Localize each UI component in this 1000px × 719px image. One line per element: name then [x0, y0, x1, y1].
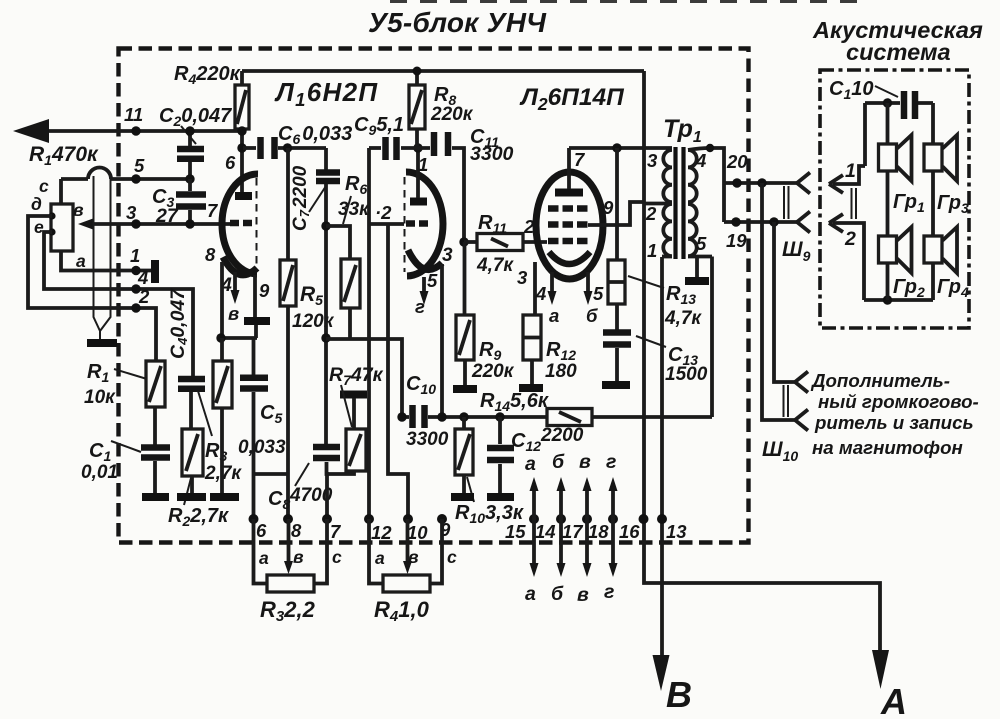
svg-text:б: б: [551, 583, 564, 605]
capacitor C1 10 (tweeter crossover): [901, 91, 908, 119]
svg-text:R145,6к: R145,6к: [480, 390, 549, 414]
svg-text:10: 10: [407, 522, 428, 543]
wire: R6 bottom to cathode bus: [348, 308, 352, 339]
svg-text:на магнитофон: на магнитофон: [812, 437, 963, 458]
svg-text:С95,1: С95,1: [354, 114, 404, 138]
svg-text:15: 15: [505, 521, 526, 542]
svg-text:С40,047: С40,047: [167, 288, 190, 359]
svg-text:9: 9: [603, 197, 614, 218]
wire: transformer tap 1 down to terminal 13 and arrow B: [660, 257, 664, 655]
node: terminal 5: [131, 174, 140, 183]
scan artifact dashes top: [390, 0, 868, 3]
wire: input line to terminal 11: [46, 129, 242, 133]
svg-text:R747к: R747к: [329, 364, 384, 388]
connector Sh10 fork lower: [795, 410, 808, 431]
svg-text:А: А: [880, 681, 907, 719]
svg-text:3300: 3300: [406, 429, 449, 450]
transformer primary winding: [662, 148, 672, 256]
wire: terminal 3 line to grid of L1a with wiper arrow: [92, 222, 231, 226]
triode 1 grid dashes: [230, 220, 239, 227]
triode 1 envelope: [222, 174, 258, 274]
resistor R1 10k: [146, 361, 165, 407]
wire: terminal 19 line: [724, 220, 797, 224]
connector Sh9 double line: [784, 186, 789, 219]
ground bar below R9: [453, 385, 477, 393]
svg-text:4: 4: [137, 267, 148, 288]
dashed border of U5 block: [119, 49, 749, 543]
L2 screen grid wire pin 9: [588, 202, 644, 225]
svg-text:R22,7к: R22,7к: [168, 505, 229, 529]
svg-text:7: 7: [330, 521, 342, 542]
ground bar below C13: [602, 381, 630, 389]
wire: C7 down to C8 junction: [324, 184, 328, 444]
capacitor C4 0,047 (vertical label): [178, 376, 205, 383]
svg-text:20: 20: [726, 151, 748, 172]
svg-text:4: 4: [535, 283, 546, 304]
svg-text:с: с: [39, 176, 49, 196]
wire: B+ rail: [242, 69, 644, 73]
svg-text:с: с: [332, 547, 342, 567]
wire: C6 to grid junction: [278, 146, 326, 150]
svg-text:с: с: [447, 547, 457, 567]
triode 1 heater pin 4 arrow: [233, 272, 237, 291]
arrow A (power): [872, 650, 889, 689]
right speaker column wires: [931, 103, 935, 300]
wire: C11 to grid of L2: [452, 148, 464, 242]
triode 1 anode plate: [235, 192, 252, 200]
ground bar below R3: [210, 493, 239, 501]
wire R1 to C1: [153, 407, 157, 445]
output tube L2 6P14P envelope: [536, 172, 603, 279]
wire: cathode 2 to feedback bus: [440, 264, 444, 417]
wire: R5 to terminal 8: [286, 306, 290, 519]
pot tap e: [48, 228, 55, 235]
svg-text:R1470к: R1470к: [29, 143, 99, 168]
triode 2 anode plate: [410, 198, 427, 206]
wire: C8 to terminal 7: [325, 462, 329, 519]
L2 cathode pin 3 to R12: [533, 262, 537, 315]
transformer secondary winding: [688, 150, 697, 256]
heater rail arrow g: [611, 489, 615, 566]
transformer primary taps: [644, 202, 672, 206]
wire: cathode bus of stage 2: [326, 339, 402, 417]
svg-text:11: 11: [124, 104, 143, 125]
svg-text:R41,0: R41,0: [374, 597, 430, 625]
resistor R12 180 (cathode bias): [523, 315, 541, 360]
resistor R9 220k (grid leak of L2): [463, 242, 467, 315]
svg-text:120к: 120к: [292, 311, 335, 332]
loudspeaker Gr3: [924, 144, 942, 171]
wire: to additional speaker connector Sh10: [762, 183, 795, 420]
capacitor C3 27: [176, 191, 206, 198]
capacitor C5 0,033: [240, 375, 268, 382]
svg-text:2: 2: [844, 228, 856, 250]
acoustic box: arrow 1 from amplifier: [833, 166, 865, 184]
ground bar below C12: [487, 493, 514, 501]
pot tap d: [48, 212, 55, 219]
svg-text:10к: 10к: [84, 387, 116, 408]
svg-text:б: б: [552, 451, 565, 473]
wire: cathode leads of triode 1: [220, 262, 224, 338]
svg-text:0,01: 0,01: [81, 462, 118, 483]
capacitor C8 4700: [313, 444, 340, 451]
capacitor C2 0,047: [177, 146, 204, 153]
resistor R3 2,7k: [213, 361, 232, 408]
L2 heater arrows pins 4,5: [550, 272, 554, 292]
L2 grid dashes (3 rows): [548, 209, 588, 242]
loudspeaker Gr2: [879, 236, 897, 263]
svg-text:7: 7: [207, 200, 219, 221]
svg-text:е: е: [34, 217, 44, 237]
capacitor C13 1500: [615, 304, 619, 330]
svg-text:7: 7: [574, 149, 586, 170]
svg-text:1: 1: [130, 245, 140, 266]
arrow B (power): [653, 655, 670, 691]
svg-text:а: а: [375, 548, 385, 568]
connector Sh9 fork 1: [797, 173, 810, 194]
cathode bar of triode 1: [244, 317, 270, 325]
svg-text:19: 19: [726, 230, 747, 251]
svg-text:в: в: [579, 451, 591, 473]
svg-text:220к: 220к: [471, 361, 515, 382]
shielded cable screen: [94, 176, 111, 339]
wire: anode of L2 to transformer tap 3: [569, 146, 662, 150]
triode 2 cathode arc: [408, 250, 442, 270]
node: terminal 2: [131, 303, 140, 312]
svg-text:3300: 3300: [470, 143, 514, 165]
svg-text:2: 2: [645, 203, 657, 224]
svg-text:г: г: [415, 296, 425, 317]
svg-text:0,033: 0,033: [238, 437, 286, 458]
resistor R5 120k (grid leak): [286, 148, 290, 260]
resistor R4 220k (plate load): [240, 71, 244, 85]
svg-text:4: 4: [695, 150, 706, 171]
resistor R11 4,7k (grid stopper): [464, 240, 477, 244]
svg-text:1: 1: [647, 240, 657, 261]
svg-text:г: г: [606, 451, 616, 473]
capacitor C12 2200: [498, 417, 502, 444]
wire: bottom rail of speaker network: [864, 298, 933, 302]
capacitor C6 0,033 (coupling): [243, 146, 256, 150]
svg-text:1500: 1500: [665, 364, 708, 385]
triode 2 heater arrow g: [422, 277, 426, 292]
svg-text:С60,033: С60,033: [278, 123, 352, 147]
wire: B+ down from rail to terminal 16 and arrow A: [644, 71, 880, 650]
ground: cable screen: [87, 339, 117, 347]
ground bar at secondary: [685, 277, 709, 285]
triode 2 grid dashes: [406, 220, 415, 227]
svg-text:18: 18: [588, 521, 609, 542]
svg-text:3: 3: [517, 267, 528, 288]
connector Sh10 fork upper: [795, 372, 808, 393]
svg-text:6: 6: [256, 520, 267, 541]
loudspeaker Gr4: [924, 236, 942, 263]
resistor R8 220k (plate load 2): [415, 71, 419, 85]
resistor R2 2,7k: [182, 429, 203, 476]
svg-text:180: 180: [545, 361, 577, 382]
pot bottom lead a: [61, 251, 151, 271]
node: terminal 1: [131, 266, 140, 275]
transformer core: [673, 147, 677, 259]
svg-text:2: 2: [138, 286, 150, 307]
svg-text:2200: 2200: [540, 425, 584, 446]
svg-text:в: в: [577, 584, 589, 606]
svg-text:4,7к: 4,7к: [664, 308, 702, 329]
svg-text:3: 3: [647, 150, 658, 171]
svg-text:16: 16: [619, 521, 640, 542]
svg-text:13: 13: [666, 521, 687, 542]
svg-text:17: 17: [562, 521, 584, 542]
wire: secondary top to terminal 20: [688, 148, 724, 222]
rheostat R3 2,2 body: [267, 575, 314, 592]
ground bar below R2: [177, 493, 206, 501]
acoustic connector double line: [852, 188, 857, 219]
svg-text:ный громкогово-: ный громкогово-: [818, 391, 979, 412]
capacitor C9 5,1 (grid-anode): [369, 146, 381, 150]
svg-text:5: 5: [427, 270, 438, 291]
dash-dot border of acoustic system box: [820, 70, 969, 328]
svg-text:1: 1: [845, 160, 856, 182]
svg-text:5: 5: [593, 283, 604, 304]
svg-text:С110: С110: [829, 78, 874, 102]
arrow: output to detector (left): [13, 119, 49, 143]
wire: C9 left / terminal 12 column: [367, 148, 371, 519]
svg-text:С72200: С72200: [290, 165, 312, 231]
svg-text:Л16Н2П: Л16Н2П: [274, 77, 378, 110]
svg-text:С20,047: С20,047: [159, 105, 232, 129]
svg-text:а: а: [525, 453, 536, 475]
capacitor C1 0,01: [141, 444, 170, 451]
svg-text:8: 8: [205, 244, 216, 265]
rheostat R4 1,0 body: [383, 575, 430, 592]
svg-text:а: а: [549, 305, 559, 326]
resistor R10 3,3k: [462, 417, 466, 429]
svg-text:б: б: [586, 305, 598, 326]
svg-text:R4220к: R4220к: [174, 63, 241, 87]
svg-text:д: д: [31, 194, 42, 214]
svg-text:5: 5: [696, 233, 707, 254]
svg-text:Л26П14П: Л26П14П: [519, 84, 625, 114]
potentiometer (volume control): [51, 204, 73, 251]
svg-text:в: в: [228, 303, 239, 324]
rheostat R3 2,2 wires: [254, 519, 268, 584]
svg-text:В: В: [666, 674, 692, 715]
wire: R7 to terminal 7 jog: [327, 471, 354, 474]
svg-text:4,7к: 4,7к: [476, 255, 514, 276]
svg-text:а: а: [525, 583, 536, 605]
wire: terminal 5 line: [61, 177, 88, 181]
svg-text:14: 14: [535, 521, 556, 542]
wire: grid 2 line: [369, 222, 404, 226]
ground bar below C1: [142, 493, 169, 501]
svg-text:3: 3: [442, 245, 453, 266]
node: terminal 11: [131, 126, 140, 135]
L2 cathode arc: [549, 252, 590, 264]
chassis tag bar at terminal 1: [151, 260, 159, 283]
heater rail arrow a: [532, 489, 536, 566]
svg-text:а: а: [76, 251, 86, 271]
svg-text:6: 6: [225, 152, 236, 173]
svg-text:220к: 220к: [430, 104, 474, 125]
rheostat R4 1,0 wires: [369, 519, 383, 584]
heater rail arrow b: [559, 489, 563, 566]
svg-text:·2: ·2: [375, 202, 392, 223]
capacitor C10 3300 (feedback): [402, 415, 409, 419]
svg-text:5: 5: [134, 155, 145, 176]
triode 1 cathode arc: [223, 257, 257, 275]
resistor R13 4,7k: [615, 148, 619, 260]
svg-text:33к: 33к: [338, 199, 370, 220]
ground bar below R10: [451, 493, 474, 501]
svg-text:8: 8: [291, 520, 302, 541]
triode 2 envelope: [406, 172, 443, 276]
wire: grid 2 to terminal 10 column: [388, 224, 408, 519]
svg-text:У5-блок УНЧ: У5-блок УНЧ: [368, 7, 547, 38]
wire: cathode junction to C5: [221, 336, 257, 340]
svg-text:12: 12: [371, 522, 392, 543]
wire: feedback line from secondary to R14: [710, 257, 714, 418]
capacitor C11 3300 (coupling to output tube): [431, 132, 438, 156]
svg-text:в: в: [293, 547, 304, 567]
svg-text:ритель и запись: ритель и запись: [814, 412, 974, 433]
svg-text:система: система: [846, 39, 951, 65]
heater rail arrow v: [585, 489, 589, 566]
L2 anode plate: [555, 189, 583, 197]
connector Sh10 double line: [784, 385, 789, 417]
capacitor C7 2200: [324, 148, 328, 170]
connector Sh9 fork 2: [797, 212, 810, 233]
wire: jog C5 column to R5 column: [254, 472, 289, 476]
terminal row dots: [249, 514, 259, 524]
svg-text:Дополнитель-: Дополнитель-: [810, 370, 950, 391]
loudspeaker Gr1: [879, 144, 897, 171]
svg-text:в: в: [73, 200, 84, 220]
wire: top rail of speaker network: [865, 103, 933, 166]
wire: C5 to terminal 6: [252, 392, 256, 519]
wire: secondary bottom to ground: [688, 257, 712, 279]
acoustic box: arrow 2: [833, 223, 864, 300]
left speaker column wires: [886, 103, 890, 300]
resistor R7 47k with top bar: [340, 391, 367, 399]
wire: anode column of triode 1: [240, 129, 244, 192]
svg-text:3: 3: [126, 202, 137, 223]
svg-text:9: 9: [259, 280, 270, 301]
resistor R6 33k: [326, 226, 350, 259]
svg-text:г: г: [604, 581, 614, 603]
node: terminal 4: [131, 284, 140, 293]
wire: anode 2 column: [416, 148, 420, 198]
ground bar below R12: [519, 384, 543, 392]
svg-text:R32,2: R32,2: [260, 597, 316, 625]
svg-text:а: а: [259, 548, 269, 568]
svg-text:в: в: [408, 547, 419, 567]
